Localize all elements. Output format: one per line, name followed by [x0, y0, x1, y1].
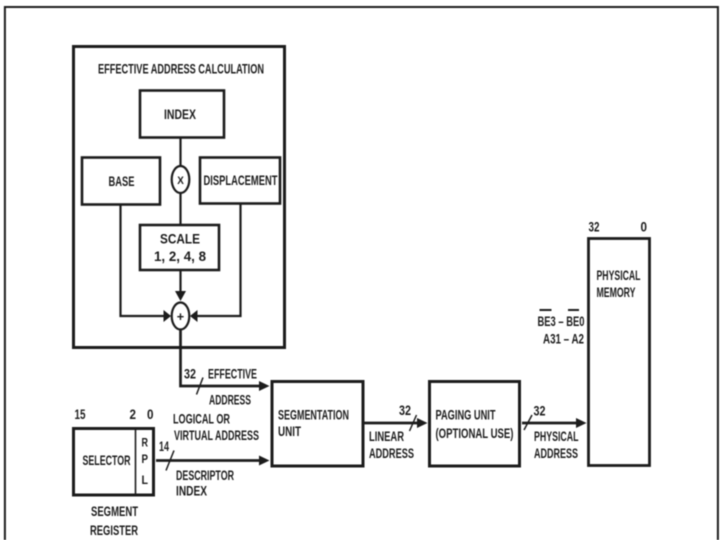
svg-text:32: 32: [184, 367, 196, 382]
svg-text:X: X: [177, 175, 184, 187]
svg-text:DESCRIPTOR: DESCRIPTOR: [176, 468, 234, 483]
svg-text:L: L: [142, 473, 149, 487]
svg-text:BE3 – BE0: BE3 – BE0: [538, 314, 585, 329]
svg-text:SCALE: SCALE: [160, 231, 200, 247]
svg-text:UNIT: UNIT: [278, 424, 302, 439]
svg-text:32: 32: [589, 220, 600, 235]
svg-text:LINEAR: LINEAR: [369, 429, 404, 444]
svg-text:DISPLACEMENT: DISPLACEMENT: [204, 172, 278, 188]
svg-text:BASE: BASE: [109, 173, 135, 189]
svg-text:A31 – A2: A31 – A2: [543, 332, 584, 347]
svg-text:14: 14: [159, 439, 169, 454]
svg-text:SEGMENTATION: SEGMENTATION: [278, 408, 349, 423]
svg-text:VIRTUAL ADDRESS: VIRTUAL ADDRESS: [174, 428, 259, 443]
svg-text:LOGICAL OR: LOGICAL OR: [173, 412, 230, 427]
svg-text:INDEX: INDEX: [164, 106, 196, 122]
svg-text:+: +: [177, 309, 185, 324]
svg-text:2: 2: [130, 407, 137, 422]
svg-text:REGISTER: REGISTER: [90, 523, 138, 538]
svg-text:EFFECTIVE ADDRESS CALCULATION: EFFECTIVE ADDRESS CALCULATION: [98, 61, 264, 77]
svg-text:ADDRESS: ADDRESS: [369, 446, 414, 461]
svg-text:0: 0: [147, 407, 154, 422]
svg-text:EFFECTIVE: EFFECTIVE: [208, 367, 257, 382]
svg-text:32: 32: [399, 403, 411, 418]
svg-text:PHYSICAL: PHYSICAL: [534, 429, 579, 444]
svg-text:0: 0: [641, 220, 648, 235]
svg-text:1, 2, 4, 8: 1, 2, 4, 8: [154, 248, 206, 264]
svg-text:MEMORY: MEMORY: [597, 285, 636, 300]
svg-text:15: 15: [75, 407, 86, 422]
svg-text:R: R: [142, 436, 149, 450]
svg-text:P: P: [142, 452, 149, 466]
svg-text:INDEX: INDEX: [176, 484, 207, 499]
svg-text:ADDRESS: ADDRESS: [209, 393, 251, 408]
svg-text:SEGMENT: SEGMENT: [91, 504, 139, 519]
svg-text:SELECTOR: SELECTOR: [83, 452, 131, 468]
svg-text:PAGING UNIT: PAGING UNIT: [436, 408, 497, 423]
svg-text:PHYSICAL: PHYSICAL: [597, 268, 641, 283]
svg-text:32: 32: [534, 404, 546, 419]
svg-text:ADDRESS: ADDRESS: [534, 446, 578, 461]
svg-text:(OPTIONAL USE): (OPTIONAL USE): [436, 426, 514, 441]
